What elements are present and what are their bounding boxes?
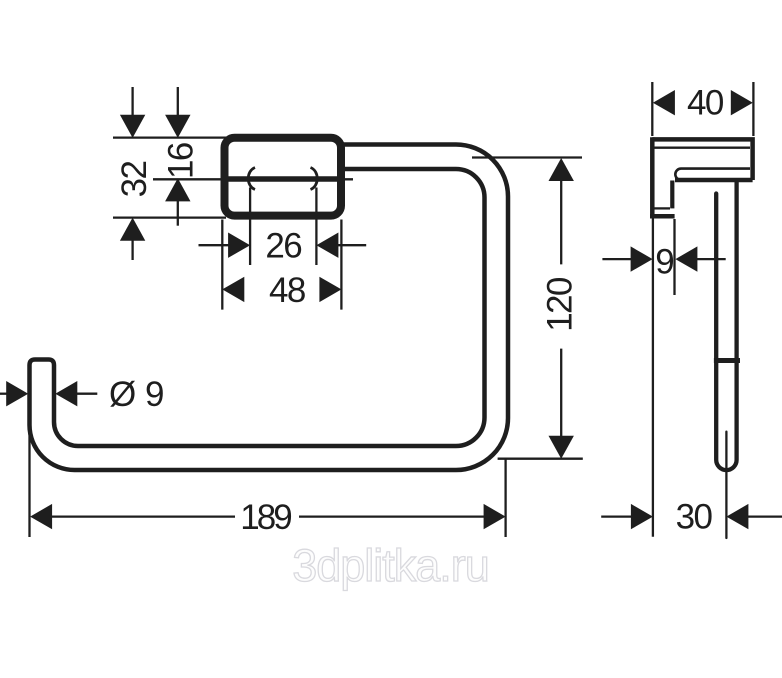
wire dim dia9 left leader: [0, 393, 7, 395]
node extension line 48 left: [221, 220, 223, 310]
arrow dim9 right: [675, 246, 697, 271]
arrow dim30 right: [726, 504, 748, 529]
bracket S1 top outline: [652, 139, 752, 180]
node extension line 189 left: [28, 420, 30, 537]
node extension line 26 left: [249, 188, 251, 266]
node extension line 189 right: [504, 459, 506, 537]
arrow dim30 left: [631, 504, 653, 529]
arrow dim32 lower: [120, 218, 145, 241]
wire dim 9 left leader: [602, 258, 631, 260]
node extension line 120 bottom: [498, 458, 583, 460]
bracket S1 left edge: [650, 137, 655, 216]
node extension line 9 left long: [652, 219, 654, 537]
svg-text:3dplitka.ru: 3dplitka.ru: [292, 540, 489, 591]
svg-text:32: 32: [115, 162, 154, 198]
clip arc right: [311, 168, 318, 190]
arrow dim16 top: [165, 115, 190, 138]
node tube break line: [714, 358, 740, 363]
arrow dim48 left: [222, 277, 244, 302]
node extension line 48 right: [340, 220, 342, 310]
arrow dim40 left: [653, 90, 675, 115]
wire dim 189 line right: [299, 515, 484, 517]
mount block B1: [225, 138, 342, 216]
wire dim 26 left leader: [199, 244, 230, 246]
arrow dim40 right: [731, 90, 753, 115]
arrow dim189 left: [30, 504, 52, 529]
wire dim 9 right leader: [697, 258, 726, 260]
clip arc left: [248, 168, 255, 190]
side view: [601, 82, 782, 538]
node extension line 26 right: [315, 188, 317, 266]
bracket arm top line: [675, 169, 750, 180]
wire dim 32 top tail: [131, 87, 133, 115]
node extension line 16 mid: [153, 178, 353, 180]
node extension line 40 right: [752, 82, 754, 136]
arrow dim26 right: [316, 233, 338, 258]
node divider line: [224, 176, 342, 182]
svg-text:40: 40: [687, 84, 724, 123]
wire dim 32 lower tail: [131, 239, 133, 260]
svg-text:30: 30: [676, 497, 713, 536]
wire dim 120 line lower: [560, 349, 562, 436]
arrow dim120 top: [549, 158, 574, 181]
arrow dim48 right: [319, 277, 341, 302]
wire dim 120 line upper: [560, 181, 562, 265]
bracket S1 foot cap: [650, 214, 675, 219]
node extension line 120 top: [472, 156, 582, 158]
node extension line 40 left: [651, 82, 653, 136]
svg-text:48: 48: [269, 271, 305, 310]
arrow dia9 left: [6, 381, 28, 406]
svg-text:189: 189: [240, 498, 291, 537]
arrow dim9 left: [631, 246, 653, 271]
node extension line 9 right: [673, 219, 675, 295]
wire dim 30 left leader: [601, 515, 631, 517]
bracket S1 foot inner: [655, 207, 671, 209]
wire tube side: [716, 182, 736, 470]
wire dim 26 right leader: [338, 244, 367, 246]
arrow dim26 left: [228, 233, 250, 258]
arrow dim120 bottom: [549, 436, 574, 459]
node extension line top: [113, 136, 226, 138]
node tube centerline: [725, 432, 727, 538]
wire ring tube outline (front view): [30, 145, 509, 471]
svg-text:26: 26: [265, 227, 301, 266]
arrow dim32 top: [120, 115, 145, 138]
svg-text:120: 120: [540, 277, 579, 332]
bracket S1 inner vertical: [670, 181, 674, 209]
bracket S1 inner top line: [655, 147, 751, 149]
arrow dim189 right: [484, 504, 506, 529]
svg-text:16: 16: [161, 143, 200, 179]
node extension line bottom32: [113, 216, 226, 218]
wire dim 16 top tail: [177, 87, 179, 115]
wire dim 30 right leader: [748, 515, 782, 517]
svg-text:Ø 9: Ø 9: [109, 375, 164, 414]
wire dim 16 lower tail: [177, 201, 179, 226]
wire dim dia9 right leader: [77, 393, 98, 395]
svg-text:9: 9: [655, 242, 673, 281]
wire dim 189 line left: [52, 515, 236, 517]
bracket arm bottom bar: [675, 178, 753, 183]
arrow dim16 lower: [165, 178, 190, 201]
arrow dia9 right: [55, 381, 77, 406]
